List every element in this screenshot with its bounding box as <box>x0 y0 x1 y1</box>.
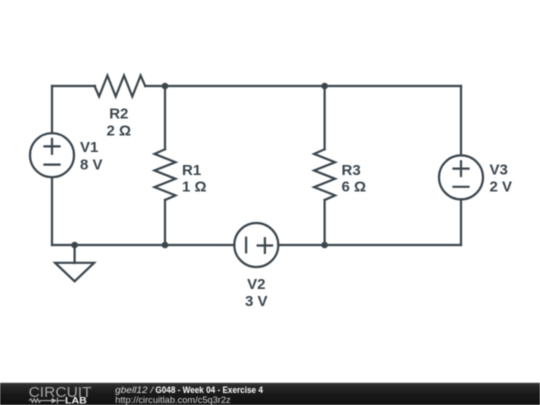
node dot ground junction <box>71 242 78 249</box>
CircuitLab logo resistor-diode doodle <box>29 397 65 403</box>
wire R3 top lead <box>324 86 326 149</box>
wire top-left horizontal (V1 top to R2 left lead) <box>52 85 95 87</box>
node dot top R1 junction <box>162 83 169 90</box>
svg-text:R2: R2 <box>109 105 128 122</box>
wire R1 top lead <box>164 86 166 149</box>
V1 plus sign <box>45 139 60 154</box>
wire top horizontal (R2 right to top-right corner) <box>145 85 461 87</box>
svg-text:V2: V2 <box>247 276 265 293</box>
svg-text:2 Ω: 2 Ω <box>107 123 132 140</box>
voltage source V3 circle <box>439 155 483 199</box>
V2 plus sign <box>258 238 272 253</box>
wire bottom-left horizontal (ground run to V2 left lead) <box>52 244 234 246</box>
node dot bottom R1 junction <box>162 242 169 249</box>
svg-text:gbell12 /: gbell12 / <box>115 385 155 395</box>
svg-text:V1: V1 <box>80 139 98 156</box>
svg-text:2 V: 2 V <box>490 178 513 195</box>
wire right vertical lower (V3 bottom lead) <box>460 199 462 245</box>
voltage source V2 circle <box>234 223 278 267</box>
svg-text:8 V: 8 V <box>80 156 103 173</box>
resistor R2 <box>95 76 146 97</box>
voltage source V1 circle <box>30 133 74 177</box>
wire right vertical upper (V3 top lead) <box>460 86 462 155</box>
wire R3 bottom lead <box>324 200 326 245</box>
svg-text:V3: V3 <box>490 162 508 179</box>
svg-text:G048 - Week 04 - Exercise 4: G048 - Week 04 - Exercise 4 <box>155 385 263 395</box>
svg-text:R1: R1 <box>182 162 201 179</box>
svg-text:3 V: 3 V <box>245 293 268 310</box>
V3 plus sign <box>454 161 469 176</box>
wire R1 bottom lead <box>164 200 166 245</box>
footer black bar <box>0 383 540 405</box>
ground stem <box>73 245 75 263</box>
wire left vertical lower (V1 bottom lead) <box>51 177 53 245</box>
svg-text:R3: R3 <box>342 162 361 179</box>
wire bottom horizontal (V2 right lead to bottom-right corner) <box>278 244 461 246</box>
resistor R3 <box>314 149 335 200</box>
V3 minus sign <box>454 186 469 188</box>
svg-text:6 Ω: 6 Ω <box>342 179 367 196</box>
node dot top R3 junction <box>321 83 328 90</box>
resistor R1 <box>155 149 176 200</box>
ground triangle <box>55 263 94 282</box>
svg-text:http://circuitlab.com/c5q3r2z: http://circuitlab.com/c5q3r2z <box>115 395 231 405</box>
wire left vertical upper (V1 top lead) <box>51 86 53 133</box>
V2 minus bar <box>245 238 247 253</box>
svg-text:1 Ω: 1 Ω <box>182 179 207 196</box>
node dot bottom R3 junction <box>321 242 328 249</box>
svg-text:LAB: LAB <box>65 396 87 405</box>
V1 minus sign <box>45 164 60 166</box>
